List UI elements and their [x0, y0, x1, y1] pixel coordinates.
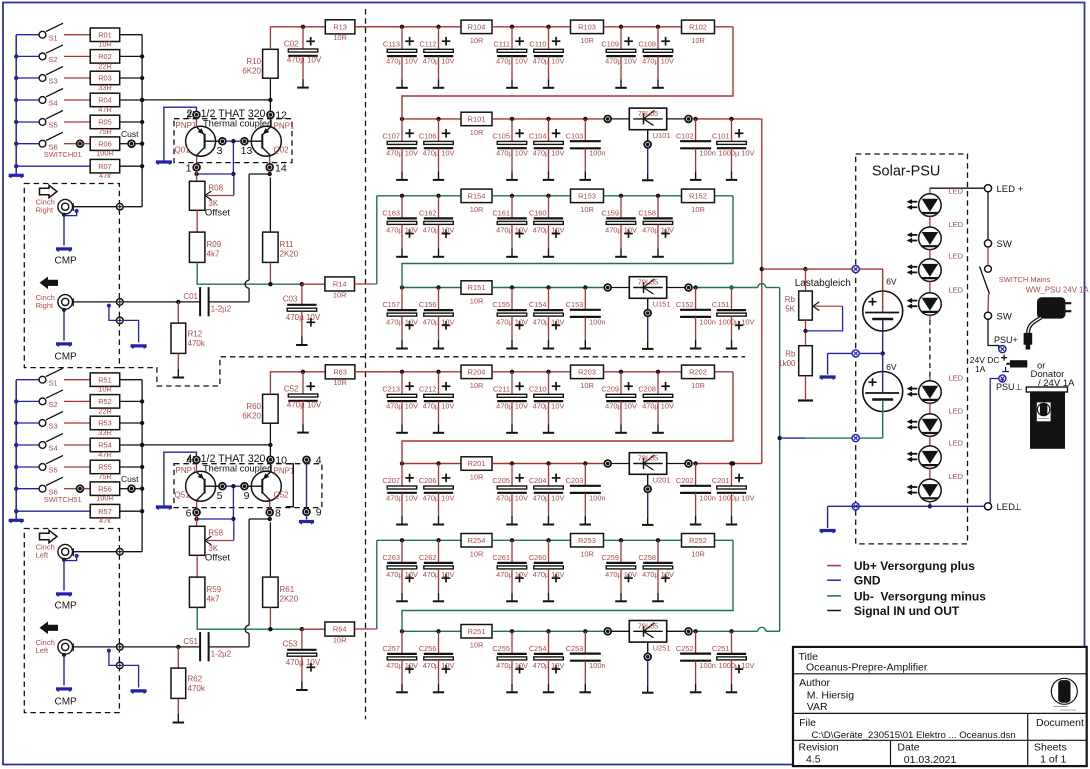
legend Ub- [827, 595, 841, 597]
resistor R64 10R [325, 622, 355, 636]
resistor R11 2K20 [263, 232, 279, 262]
dashed box CMP (Right inputs) [24, 184, 119, 368]
svg-text:LED: LED [949, 286, 964, 295]
wire signal [73, 206, 117, 208]
cinch connector Left 2 [58, 640, 73, 655]
svg-text:S4: S4 [49, 444, 58, 453]
resistor R252 10R [682, 534, 715, 548]
row bus R201 [402, 463, 461, 465]
regulator 79L05 U251 [611, 630, 629, 632]
wire [120, 55, 142, 57]
wire R60 bottom to pin [269, 423, 271, 456]
resistor R003 33R [90, 71, 120, 85]
wire LED chain bottom [929, 502, 931, 507]
capacitor C108 470u [656, 25, 660, 29]
resistor R09 4k7 [189, 232, 205, 262]
row bus R254 [377, 539, 461, 541]
transistor Q51 [186, 471, 216, 501]
svg-text:SWITCH51: SWITCH51 [44, 495, 82, 504]
resistor R57 47k [16, 510, 90, 512]
dashed vertical separator [365, 9, 367, 719]
svg-text:LED: LED [949, 472, 964, 481]
switch S6 (SWITCH51) [16, 488, 39, 490]
icon DC jack [1001, 357, 1007, 359]
svg-text:33R: 33R [98, 83, 112, 92]
capacitor C152 100n [693, 285, 697, 289]
svg-text:PNP1: PNP1 [274, 122, 295, 131]
svg-text:10R: 10R [470, 381, 484, 390]
svg-text:C204: C204 [529, 476, 547, 485]
wire [492, 195, 570, 197]
wire [120, 444, 142, 446]
svg-text:LED: LED [949, 374, 964, 383]
capacitor C03 470u inverted [301, 284, 303, 305]
pad Cust (SWITCH01) [120, 143, 128, 145]
svg-text:14: 14 [275, 163, 287, 175]
svg-text:C262: C262 [419, 553, 437, 562]
svg-text:10R: 10R [691, 381, 705, 390]
svg-text:470µ 10V: 470µ 10V [287, 56, 322, 65]
wire SW to PSU+ [988, 319, 999, 349]
svg-text:5K: 5K [785, 305, 795, 314]
svg-text:LED: LED [949, 187, 964, 196]
pad S6 (SWITCH01) [64, 143, 77, 145]
svg-text:Offset: Offset [205, 208, 231, 219]
svg-text:VAR: VAR [807, 701, 828, 713]
wire [64, 121, 90, 123]
svg-text:Author: Author [799, 677, 830, 689]
svg-text:10R: 10R [691, 549, 705, 558]
svg-text:6V: 6V [886, 362, 897, 372]
svg-text:SWITCH Mains: SWITCH Mains [999, 275, 1051, 284]
svg-text:1000µ 10V: 1000µ 10V [719, 661, 755, 670]
svg-text:100n: 100n [699, 149, 715, 158]
svg-text:C208: C208 [638, 384, 656, 393]
pot wiper [233, 519, 235, 541]
capacitor C163 470u [400, 194, 404, 198]
legend GND [827, 579, 841, 581]
logo [1051, 678, 1077, 704]
row bus R104 [355, 26, 461, 28]
capacitor C157 470u [400, 285, 404, 289]
capacitor C208 470u [656, 370, 660, 374]
svg-text:R09: R09 [207, 240, 222, 249]
wire [692, 118, 762, 120]
resistor R103 10R [571, 20, 604, 33]
svg-text:R52: R52 [98, 397, 112, 406]
svg-text:10R: 10R [470, 297, 484, 306]
svg-text:1 of 1: 1 of 1 [1040, 754, 1066, 766]
svg-text:10R: 10R [470, 473, 484, 482]
wire return to gnd [123, 665, 139, 687]
switch S3 (SWITCH51) [16, 422, 39, 424]
svg-text:R153: R153 [578, 191, 596, 200]
wire ladder R04 output [142, 444, 270, 446]
svg-text:75R: 75R [98, 472, 112, 481]
svg-text:Rb: Rb [785, 350, 796, 359]
svg-text:C213: C213 [382, 384, 400, 393]
wire [604, 371, 682, 373]
pad S6 (SWITCH51) [64, 488, 77, 490]
svg-text:R13: R13 [333, 22, 347, 31]
svg-text:10R: 10R [98, 40, 112, 49]
wire to cap row [355, 26, 402, 28]
svg-text:C158: C158 [638, 208, 656, 217]
resistor R51 10R [90, 373, 120, 387]
svg-text:LED: LED [949, 252, 964, 261]
svg-text:U201: U201 [653, 476, 671, 485]
resistor R14 10R [325, 277, 355, 291]
capacitor C151 1000u [729, 285, 733, 289]
wire ladder R04 output [142, 99, 270, 101]
capacitor C154 470u [546, 285, 550, 289]
icon wall-wart PSU [1038, 298, 1066, 318]
resistor R254 10R [461, 534, 492, 548]
svg-text:S1: S1 [49, 33, 58, 42]
svg-text:S3: S3 [49, 77, 58, 86]
resistor R53 33R [90, 416, 120, 430]
resistor R14/R64 10R [302, 283, 325, 285]
wire signal [73, 551, 117, 553]
pad PSU+ [999, 346, 1006, 353]
svg-text:10R: 10R [580, 549, 594, 558]
wire [64, 99, 90, 101]
resistor R56 100R [90, 482, 120, 496]
gnd blue bus left (SWITCH01) [15, 35, 17, 176]
svg-text:C257: C257 [382, 644, 400, 653]
gnd shield cinch 2 [62, 308, 66, 312]
wire [492, 26, 570, 28]
svg-text:R06: R06 [98, 139, 112, 148]
svg-text:R10: R10 [246, 57, 261, 66]
svg-text:1A: 1A [975, 364, 986, 374]
svg-text:3: 3 [217, 145, 223, 157]
svg-text:C153: C153 [566, 300, 584, 309]
signal bus vertical [141, 380, 143, 552]
capacitor C213 470u [400, 370, 404, 374]
svg-text:Revision: Revision [799, 742, 839, 754]
svg-text:C206: C206 [419, 476, 437, 485]
capacitor C52 470u [302, 372, 304, 394]
svg-text:C209: C209 [601, 384, 619, 393]
wire [120, 466, 142, 468]
capacitor C105 470u [510, 117, 514, 121]
svg-text:R254: R254 [468, 536, 486, 545]
wire [64, 466, 90, 468]
svg-text:100n: 100n [699, 493, 715, 502]
svg-text:PNP1: PNP1 [274, 467, 295, 476]
svg-text:470k: 470k [188, 684, 206, 693]
svg-text:4: 4 [316, 455, 322, 467]
pin 6 pad [196, 501, 198, 509]
pad signal 1 [117, 548, 124, 555]
svg-text:R251: R251 [468, 627, 486, 636]
svg-text:C259: C259 [601, 553, 619, 562]
svg-text:C52: C52 [284, 384, 299, 393]
switch S1 (SWITCH01) [16, 34, 39, 36]
jumper row7-row8 [402, 540, 733, 631]
svg-text:S5: S5 [49, 466, 58, 475]
svg-text:22R: 22R [98, 406, 112, 415]
svg-text:Right: Right [36, 301, 54, 310]
svg-text:10R: 10R [691, 205, 705, 214]
svg-text:Q51: Q51 [175, 491, 191, 500]
wire Ub+ to solar [762, 268, 806, 270]
svg-text:C202: C202 [676, 476, 694, 485]
pad LED- [984, 503, 991, 510]
svg-text:9: 9 [316, 507, 322, 519]
blue return net [107, 304, 111, 308]
wire Rb5K to Rb1k00 [805, 320, 807, 346]
wire [715, 539, 733, 541]
potentiometer R58 3K [189, 526, 205, 555]
svg-text:C160: C160 [529, 208, 547, 217]
svg-text:100n: 100n [589, 149, 605, 158]
svg-text:R103: R103 [578, 22, 596, 31]
svg-text:R202: R202 [689, 367, 707, 376]
capacitor C160 470u [546, 194, 550, 198]
svg-text:47R: 47R [98, 105, 112, 114]
svg-text:S5: S5 [49, 121, 58, 130]
svg-text:R201: R201 [468, 459, 486, 468]
svg-text:Ub+ Versorgung plus: Ub+ Versorgung plus [854, 559, 975, 573]
capacitor C210 470u [546, 370, 550, 374]
wire [715, 371, 733, 373]
svg-text:C:\D\Geräte_230515\01 Elektro: C:\D\Geräte_230515\01 Elektro ... Oceanu… [812, 730, 1016, 741]
svg-text:Document: Document [1036, 717, 1084, 729]
svg-text:C152: C152 [676, 300, 694, 309]
svg-text:R60: R60 [246, 402, 261, 411]
svg-text:PSU: PSU [996, 382, 1015, 392]
wire [604, 26, 682, 28]
svg-text:CMP: CMP [55, 601, 78, 612]
capacitor C260 470u [546, 538, 550, 542]
wire [604, 195, 682, 197]
bracket right of Q52 [286, 464, 293, 507]
capacitor C254 470u [546, 629, 550, 633]
cinch connector Left 1 [58, 544, 73, 559]
svg-text:Signal IN und OUT: Signal IN und OUT [854, 604, 960, 618]
svg-text:R57: R57 [98, 507, 112, 516]
arrow in (outline right arrow) [40, 530, 58, 542]
switch S4 (SWITCH01) [16, 99, 39, 101]
capacitor C203 100n [583, 461, 587, 465]
svg-text:100R: 100R [96, 494, 114, 503]
LED D3 [919, 259, 942, 282]
svg-text:10R: 10R [580, 381, 594, 390]
wire [120, 99, 142, 101]
svg-text:Cust: Cust [121, 129, 139, 139]
svg-text:⊥: ⊥ [1015, 382, 1023, 392]
svg-text:R01: R01 [98, 30, 112, 39]
svg-text:S1: S1 [49, 378, 58, 387]
arrow out (solid left arrow) [40, 277, 59, 290]
svg-text:Offset: Offset [205, 553, 231, 564]
wire [120, 400, 142, 402]
wire [492, 371, 570, 373]
pad LED+ [984, 185, 991, 192]
capacitor C107 470u [400, 117, 404, 121]
svg-text:12: 12 [275, 110, 287, 122]
resistor R13 10R [325, 20, 355, 34]
resistor R006 100R [90, 137, 120, 151]
wire to cap row [355, 371, 402, 373]
regulator 78L05 U101 [611, 118, 629, 120]
pin 13 pad [241, 138, 248, 145]
resistor R202 10R [682, 365, 715, 379]
svg-text:100n: 100n [589, 661, 605, 670]
pin 9 pad [241, 483, 248, 490]
capacitor C253 100n [583, 629, 587, 633]
transistor Q01 [186, 126, 216, 156]
pot wiper [233, 174, 235, 196]
capacitor C101 1000u [729, 117, 733, 121]
resistor R10 6K20 (vertical) [263, 49, 279, 78]
LED D4 [919, 293, 942, 316]
svg-text:4: 4 [186, 455, 192, 467]
svg-text:LED: LED [949, 220, 964, 229]
svg-text:R51: R51 [98, 375, 112, 384]
svg-text:R63: R63 [333, 367, 347, 376]
gnd blue bus left (SWITCH51) [15, 380, 17, 521]
dashed notch below CMP right box [119, 357, 745, 386]
resistor R005 75R [90, 115, 120, 129]
dashed box Solar-PSU [856, 154, 968, 544]
dashed box CMP (Left inputs) [24, 529, 119, 713]
capacitor C262 470u [436, 538, 440, 542]
svg-text:C253: C253 [566, 644, 584, 653]
svg-text:C113: C113 [383, 39, 400, 48]
transistor Q52 [251, 471, 281, 501]
svg-text:22R: 22R [98, 61, 112, 70]
pad return [117, 317, 124, 324]
wire Rb bottom terminal [805, 376, 807, 399]
dashed box 2x 1/2 THAT 320 [174, 119, 292, 163]
pin 4 pad [195, 456, 197, 472]
svg-text:C03: C03 [283, 295, 298, 304]
switch S5 (SWITCH01) [16, 121, 39, 123]
svg-text:4.5: 4.5 [806, 754, 821, 766]
svg-text:C151: C151 [712, 300, 730, 309]
svg-text:13: 13 [241, 145, 253, 157]
blue wire emitter to gnd [164, 107, 197, 160]
svg-text:SW: SW [997, 239, 1012, 250]
wire [120, 422, 142, 424]
wire feed [270, 372, 325, 395]
svg-text:C155: C155 [492, 300, 510, 309]
capacitor C205 470u [510, 461, 514, 465]
gnd shield cinch 2 [62, 653, 66, 657]
green vertical to row R154 [376, 196, 378, 284]
svg-text:PSU+: PSU+ [994, 335, 1018, 345]
resistor R001 10R [90, 28, 120, 42]
blue base link [226, 140, 241, 142]
resistor R07 47k [16, 165, 90, 167]
svg-text:100n: 100n [699, 661, 715, 670]
svg-text:Cust: Cust [121, 474, 139, 484]
svg-text:C162: C162 [419, 208, 437, 217]
resistor R63 10R [325, 365, 355, 379]
svg-text:C210: C210 [529, 384, 547, 393]
svg-text:S2: S2 [49, 400, 58, 409]
svg-text:100n: 100n [589, 317, 605, 326]
resistor R251 10R [461, 625, 492, 639]
svg-text:100n: 100n [699, 317, 715, 326]
wire [64, 77, 90, 79]
LED D8 [919, 479, 942, 502]
svg-text:R62: R62 [188, 675, 203, 684]
svg-text:78L05: 78L05 [638, 454, 659, 463]
svg-text:2K20: 2K20 [280, 595, 299, 604]
wire feed [270, 27, 325, 50]
capacitor C103 100n [583, 117, 587, 121]
pin 2 pad [195, 111, 197, 127]
svg-text:C260: C260 [529, 553, 547, 562]
capacitor C159 470u [619, 194, 623, 198]
svg-text:10R: 10R [470, 36, 484, 45]
capacitor C110 470u [546, 25, 550, 29]
capacitor C162 470u [436, 194, 440, 198]
resistor R004 47R [90, 93, 120, 107]
wire [492, 287, 604, 289]
svg-text:R64: R64 [333, 625, 347, 634]
capacitor C206 470u [436, 461, 440, 465]
svg-text:10: 10 [275, 455, 287, 467]
svg-text:WW_PSU 24V 1A: WW_PSU 24V 1A [1026, 286, 1090, 295]
svg-text:C263: C263 [382, 553, 400, 562]
svg-text:79L05: 79L05 [638, 621, 659, 630]
wire [492, 539, 570, 541]
wire [64, 34, 90, 36]
svg-text:LED: LED [997, 502, 1016, 513]
svg-text:R54: R54 [98, 441, 112, 450]
resistor R60 6K20 (vertical) [263, 394, 279, 423]
svg-text:U251: U251 [653, 643, 671, 652]
svg-text:01.03.2021: 01.03.2021 [904, 754, 957, 766]
svg-text:33R: 33R [98, 428, 112, 437]
pin 10 pad [270, 456, 272, 472]
svg-text:LED +: LED + [997, 184, 1024, 195]
pad return [117, 662, 124, 669]
svg-text:10R: 10R [333, 378, 347, 387]
svg-text:1000µ 10V: 1000µ 10V [719, 149, 755, 158]
pin 12 pad [270, 111, 272, 127]
LED D6 [919, 414, 942, 437]
pin 1 pad [196, 156, 198, 164]
svg-text:R56: R56 [98, 484, 112, 493]
wire [64, 400, 90, 402]
resistor R52 22R [90, 395, 120, 409]
svg-text:S4: S4 [49, 99, 58, 108]
svg-text:C111: C111 [493, 39, 510, 48]
svg-text:R11: R11 [280, 240, 295, 249]
svg-text:470µ 10V: 470µ 10V [286, 313, 321, 322]
svg-text:6V: 6V [886, 276, 897, 286]
svg-text:5: 5 [217, 490, 223, 502]
resistor Rb 1k00 [799, 346, 813, 376]
svg-text:10R: 10R [333, 636, 347, 645]
svg-text:10R: 10R [333, 291, 347, 300]
resistor R104 10R [461, 20, 492, 33]
capacitor C211 470u [510, 370, 514, 374]
capacitor C204 470u [546, 461, 550, 465]
capacitor C113 470u [400, 25, 404, 29]
svg-text:2K20: 2K20 [280, 250, 299, 259]
svg-text:U101: U101 [653, 131, 671, 140]
wire [120, 34, 142, 36]
wire [492, 463, 604, 465]
green Ub- line [197, 262, 302, 284]
